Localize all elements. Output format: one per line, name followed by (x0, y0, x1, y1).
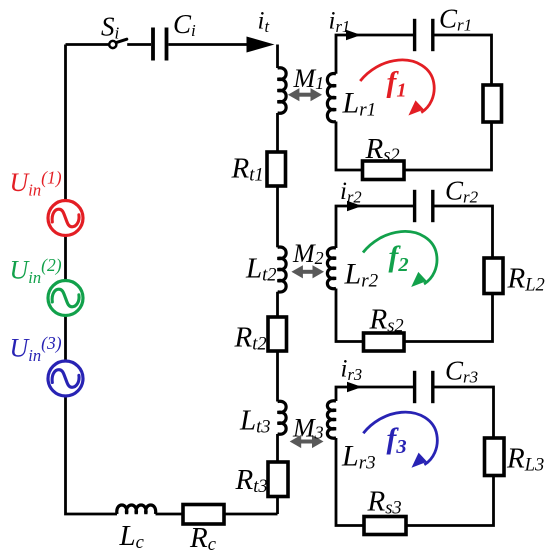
AC source Uin1 (48, 201, 83, 236)
wire bottom Rc to trunk (224, 513, 278, 516)
coupling arrow M1 (288, 88, 322, 101)
inductor Lr3 (327, 401, 336, 438)
wire trunk coil1 to Rt1 (276, 113, 279, 152)
loop 1 wires (336, 35, 492, 170)
current arrow i_t (247, 37, 275, 53)
wire loop3 top-right (434, 387, 493, 438)
resistor Rs2 loop2 (364, 333, 405, 351)
wire capacitor to arrow (169, 43, 251, 46)
resistor Rs2 loop1 (363, 161, 405, 180)
wire loop2 top-left (336, 206, 413, 248)
current arrow i_r3 (347, 382, 362, 392)
resistor Rc (183, 505, 224, 525)
switch Si (109, 39, 127, 48)
resistor RL3 (485, 438, 505, 476)
loop 3 wires (336, 387, 494, 526)
inductor Lr1 (327, 74, 336, 122)
wire bottom Lc to Rc (156, 513, 184, 516)
wire loop1 top-right (434, 35, 491, 85)
flux arrow f2 (363, 231, 437, 287)
wire source1 to source2 (64, 236, 67, 281)
wire top-left horizontal (66, 43, 110, 46)
resistor Rt2 (268, 317, 287, 351)
coupling arrow M3 (290, 435, 324, 448)
wire left rail upper (64, 45, 67, 201)
wire left rail lower (66, 396, 118, 514)
wire loop1 right-bottom (404, 122, 492, 170)
AC source Uin2 (48, 281, 83, 316)
inductor Lc (117, 505, 156, 514)
wire trunk Lt2 to Rt2 (276, 292, 279, 317)
inductor Lr2 (327, 248, 336, 289)
inductor Lt3 (278, 401, 287, 434)
loop 2 wires (336, 206, 493, 342)
wire trunk Rt1 to Lt2 (276, 186, 279, 247)
inductor Lt2 (278, 247, 287, 292)
wire trunk top (276, 45, 279, 69)
coupling arrow M2 (291, 265, 324, 278)
capacitor Ci (153, 28, 167, 61)
wire loop2 right-bottom (404, 294, 493, 342)
current arrow i_r1 (346, 30, 361, 40)
AC source Uin3 (48, 361, 83, 396)
capacitor Cr1 (415, 19, 433, 51)
wire loop1 top-left (336, 35, 413, 74)
wire trunk Lt3 to Rt3 (276, 434, 279, 462)
wire loop2 bottom-left (336, 289, 364, 342)
flux arrow f3 (363, 412, 437, 468)
wire trunk Rt3 to bottom (276, 497, 279, 515)
flux arrow f1 (360, 60, 434, 116)
current arrow i_r2 (347, 201, 362, 211)
resistor Rt1 (267, 152, 286, 186)
inductor transmitter coil 1 (278, 68, 287, 114)
wire loop3 top-left (336, 387, 413, 401)
resistor Rt3 (268, 462, 288, 497)
wire loop3 bottom-left (336, 438, 364, 526)
capacitor Cr3 (415, 371, 433, 403)
wire switch to capacitor (127, 43, 151, 46)
wire loop2 top-right (434, 206, 492, 258)
resistor Rs3 (364, 517, 406, 535)
resistor loop1 right unlabeled (483, 85, 502, 122)
wire loop1 bottom-left (336, 122, 363, 171)
capacitor Cr2 (415, 190, 433, 222)
wire loop3 right-bottom (406, 476, 494, 526)
resistor RL2 (484, 258, 503, 294)
wire trunk Rt2 to Lt3 (276, 351, 279, 402)
wire source2 to source3 (64, 316, 67, 362)
